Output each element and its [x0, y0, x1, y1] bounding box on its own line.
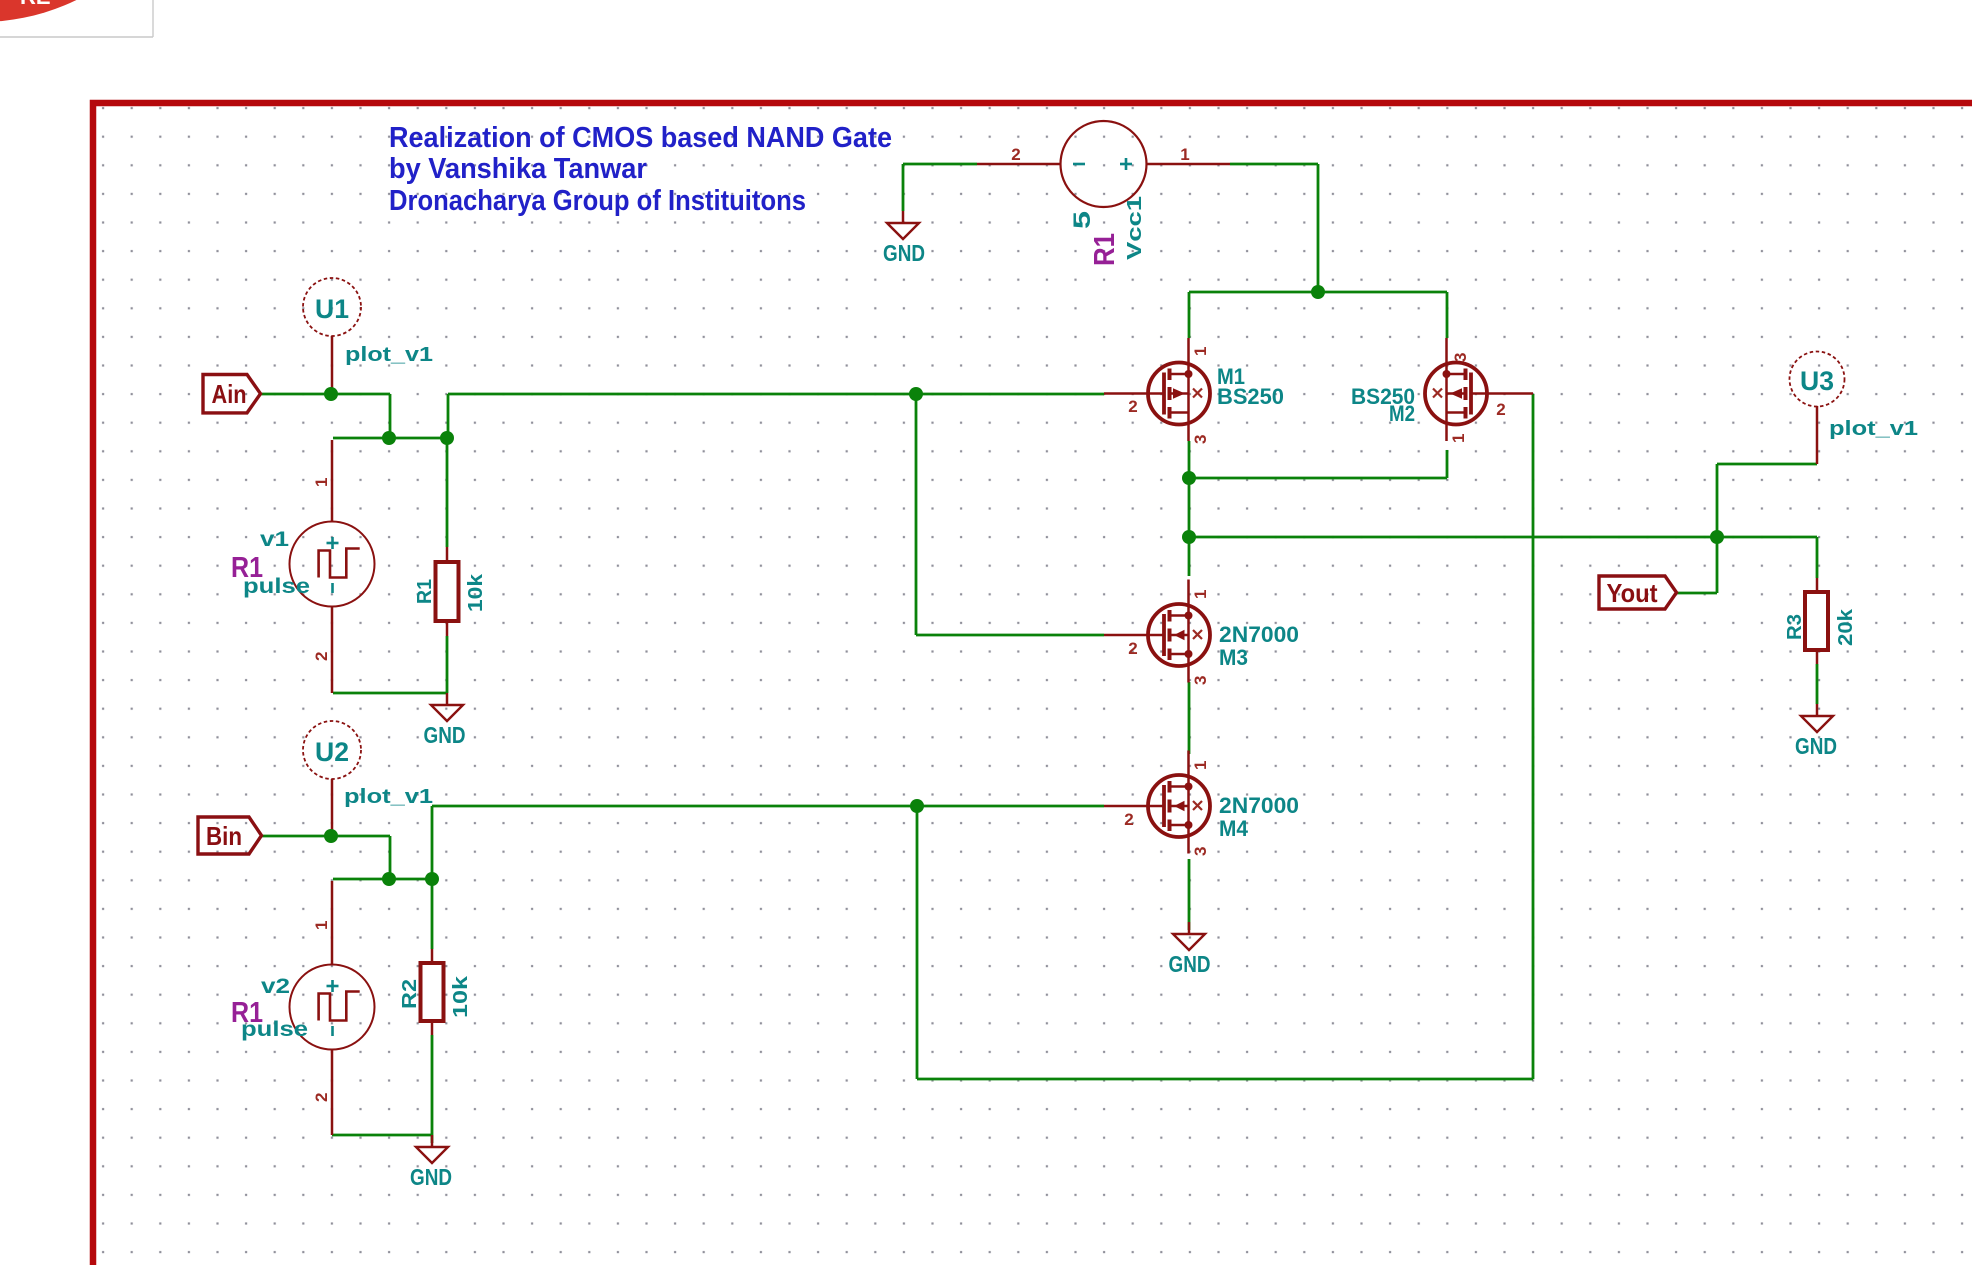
svg-text:2N7000: 2N7000 — [1219, 793, 1299, 818]
svg-text:2: 2 — [1496, 400, 1505, 419]
svg-text:R1: R1 — [414, 579, 436, 604]
svg-text:R1: R1 — [1089, 233, 1121, 266]
svg-text:U3: U3 — [1800, 366, 1834, 396]
svg-text:pulse: pulse — [241, 1018, 308, 1041]
svg-text:M4: M4 — [1219, 816, 1249, 841]
svg-text:2: 2 — [312, 652, 331, 661]
svg-text:1: 1 — [1191, 590, 1210, 599]
svg-text:2: 2 — [1124, 810, 1133, 829]
svg-text:2N7000: 2N7000 — [1219, 622, 1299, 647]
svg-text:GND: GND — [883, 240, 925, 266]
svg-text:plot_v1: plot_v1 — [1829, 418, 1918, 440]
svg-text:U2: U2 — [315, 737, 349, 767]
svg-text:plot_v1: plot_v1 — [344, 786, 433, 808]
svg-text:RE: RE — [20, 0, 51, 9]
svg-text:3: 3 — [1191, 676, 1210, 685]
svg-text:2: 2 — [1128, 639, 1137, 658]
svg-text:R3: R3 — [1784, 614, 1806, 640]
svg-text:v1: v1 — [260, 528, 289, 551]
svg-text:U1: U1 — [315, 294, 349, 324]
svg-text:10k: 10k — [465, 573, 487, 612]
svg-text:1: 1 — [312, 478, 331, 487]
svg-text:2: 2 — [312, 1093, 331, 1102]
svg-text:Vcc1: Vcc1 — [1124, 196, 1146, 260]
svg-text:M3: M3 — [1219, 645, 1248, 670]
svg-text:M2: M2 — [1389, 401, 1415, 426]
svg-text:5: 5 — [1069, 211, 1096, 229]
svg-text:2: 2 — [1128, 397, 1137, 416]
svg-text:20k: 20k — [1835, 608, 1857, 646]
svg-text:by Vanshika Tanwar: by Vanshika Tanwar — [389, 153, 647, 185]
svg-text:GND: GND — [410, 1164, 452, 1190]
svg-text:Dronacharya Group of Instituit: Dronacharya Group of Instituitons — [389, 185, 806, 217]
svg-text:GND: GND — [1169, 951, 1211, 977]
svg-text:R2: R2 — [399, 979, 421, 1009]
svg-text:Ain: Ain — [212, 379, 247, 409]
svg-text:1: 1 — [1191, 347, 1210, 356]
svg-text:plot_v1: plot_v1 — [345, 344, 433, 366]
svg-text:3: 3 — [1191, 435, 1210, 444]
svg-text:Bin: Bin — [206, 821, 242, 851]
svg-text:1: 1 — [1449, 434, 1468, 443]
svg-text:1: 1 — [1191, 761, 1210, 770]
svg-text:2: 2 — [1011, 145, 1020, 164]
svg-text:GND: GND — [424, 722, 466, 748]
svg-text:3: 3 — [1451, 353, 1470, 362]
svg-text:1: 1 — [312, 921, 331, 930]
svg-text:Realization of CMOS based NAND: Realization of CMOS based NAND Gate — [389, 122, 892, 154]
svg-text:pulse: pulse — [243, 575, 310, 598]
svg-text:GND: GND — [1795, 733, 1837, 759]
svg-text:1: 1 — [1180, 145, 1189, 164]
svg-text:v2: v2 — [261, 975, 290, 998]
svg-text:3: 3 — [1191, 847, 1210, 856]
svg-text:10k: 10k — [450, 975, 472, 1018]
svg-text:BS250: BS250 — [1217, 384, 1284, 409]
svg-text:Yout: Yout — [1607, 578, 1658, 608]
